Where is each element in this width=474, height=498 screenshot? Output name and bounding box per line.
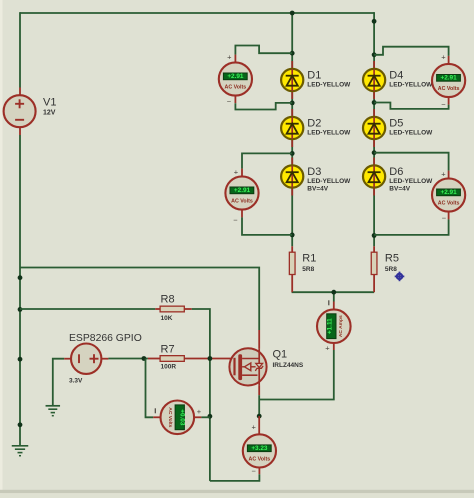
svg-text:+: +: [441, 52, 446, 61]
battery V1 12V DC source: [4, 95, 36, 127]
svg-text:ESP8266 GPIO: ESP8266 GPIO: [69, 333, 142, 344]
svg-text:V1: V1: [43, 97, 56, 109]
label M2 minus: [233, 215, 238, 224]
svg-text:AC Volts: AC Volts: [438, 200, 460, 206]
node source junction: [257, 414, 262, 419]
svg-text:D5: D5: [389, 118, 403, 130]
resistor R7: [160, 356, 184, 362]
wire D1 top pin: [291, 61, 293, 69]
node M7 negative junction: [372, 233, 377, 238]
battery ESP8266 GPIO source 3.3V: [71, 344, 101, 374]
svg-text:+: +: [227, 52, 232, 61]
wire M1 bottom pin: [234, 96, 236, 104]
label 10K: [161, 315, 173, 322]
label M1 minus: [227, 97, 232, 106]
label M4 minus: [154, 408, 156, 413]
wire M5 top pin: [333, 302, 335, 310]
svg-text:BV=4V: BV=4V: [307, 186, 328, 193]
svg-text:LED-YELLOW: LED-YELLOW: [389, 81, 433, 88]
label LED-YELLOW for D1: [307, 81, 351, 88]
wire source node segment: [258, 395, 260, 416]
wire M5 to resistor bottom wire: [333, 292, 335, 301]
ammeter M5 AC Amps +1.11: [317, 309, 351, 343]
label LED-YELLOW for D6: [389, 178, 433, 185]
label M3 plus: [441, 52, 446, 61]
wire ESP8266 to R7: [108, 358, 147, 360]
diode D5 LED-YELLOW: [363, 117, 385, 139]
svg-text:D1: D1: [307, 70, 321, 82]
wire D6 top pin: [373, 158, 375, 166]
voltmeter M7 AC Volts +2.91 bottom right: [432, 178, 465, 211]
node gate junction: [208, 356, 213, 361]
wire R7 to Q1 gate pin: [184, 358, 239, 360]
wire ESP8266 left pin: [64, 358, 71, 360]
svg-text:D2: D2: [307, 118, 321, 130]
svg-text:+2.91: +2.91: [441, 75, 458, 82]
wire D3 to R1 segment: [291, 196, 293, 247]
svg-text:AC Amps: AC Amps: [338, 315, 344, 337]
node M7 positive junction: [372, 150, 377, 155]
wire V1 bottom pin: [19, 127, 21, 135]
wire Q1 drain pin: [258, 330, 260, 349]
label Q1: [273, 348, 288, 360]
svg-text:+: +: [234, 167, 239, 176]
wire R5 top pin: [373, 246, 375, 252]
svg-text:−: −: [233, 215, 238, 224]
wire V1 top pin: [19, 88, 21, 96]
svg-text:+3.23: +3.23: [251, 445, 268, 452]
wire ESP8266 ground lead: [53, 359, 64, 406]
svg-text:R1: R1: [302, 252, 316, 264]
label M1 plus: [227, 52, 232, 61]
label D6: [389, 166, 403, 178]
label 5R8 for R1: [302, 266, 314, 273]
label 5R8 for R5: [385, 266, 397, 273]
svg-text:AC Volts: AC Volts: [167, 407, 173, 427]
wire M6 negative lead: [210, 474, 260, 481]
voltmeter M2 AC Volts +2.91 mid left: [225, 176, 258, 209]
node on left rail A: [18, 275, 23, 280]
node amps tap junction: [331, 290, 336, 295]
ground for ESP8266: [46, 406, 61, 416]
node M1 positive junction: [290, 51, 295, 56]
label D2: [307, 118, 321, 130]
svg-text:D4: D4: [389, 70, 403, 82]
svg-text:+1.11: +1.11: [327, 318, 334, 334]
node M4 positive junction: [208, 414, 213, 419]
wire R8 left pin: [155, 308, 160, 310]
label M6 plus: [252, 423, 257, 432]
wire D2 top pin: [291, 109, 293, 117]
svg-text:D3: D3: [307, 166, 321, 178]
label D4: [389, 70, 403, 82]
node on left rail B: [18, 307, 23, 312]
svg-text:+: +: [252, 423, 257, 432]
svg-text:−: −: [442, 213, 447, 222]
svg-text:+: +: [325, 344, 330, 353]
wire M2 top pin: [241, 169, 243, 177]
label D5: [389, 118, 403, 130]
node M3 negative junction: [372, 100, 377, 105]
voltmeter M1 AC Volts +2.91 top left: [219, 62, 252, 95]
wire top rail from V1 to LED strings: [20, 12, 374, 14]
resistor R5: [371, 252, 377, 274]
node M2 positive junction: [290, 151, 295, 156]
label M5 minus: [328, 300, 330, 305]
wire M5 bottom pin: [333, 343, 335, 350]
svg-text:LED-YELLOW: LED-YELLOW: [389, 129, 433, 136]
voltmeter M4 AC Volts +0.03: [161, 401, 195, 435]
resistor R1: [289, 252, 295, 274]
wire M1 negative lead: [235, 103, 292, 110]
svg-text:AC Volts: AC Volts: [438, 86, 460, 92]
svg-text:Q1: Q1: [273, 348, 288, 360]
wire M2 bottom pin: [241, 210, 243, 218]
node M1 negative junction: [290, 101, 295, 106]
wire D6 to R5 segment: [373, 196, 375, 247]
wire M4 left pin: [153, 416, 160, 418]
wire right LED string: [373, 12, 375, 195]
wire M7 positive lead: [374, 153, 449, 171]
wire M6 bottom pin: [258, 468, 260, 475]
wire M7 negative lead: [374, 219, 449, 235]
svg-text:LED-YELLOW: LED-YELLOW: [307, 129, 351, 136]
wire D2 bottom pin: [291, 139, 293, 147]
wire D3 top pin: [291, 158, 293, 166]
node right string top: [372, 19, 377, 24]
wire M3 negative lead: [374, 103, 449, 109]
wire M4 positive lead: [201, 416, 210, 418]
svg-text:−: −: [252, 467, 257, 476]
wire M3 bottom pin: [448, 97, 450, 105]
svg-text:5R8: 5R8: [302, 266, 314, 273]
svg-text:R7: R7: [161, 343, 175, 355]
label 100R: [161, 363, 177, 370]
diode D2 LED-YELLOW: [281, 117, 303, 139]
transistor Q1 IRLZ44NS MOSFET: [229, 348, 266, 385]
label M2 plus: [234, 167, 239, 176]
wire R7 left pin: [148, 358, 160, 360]
wire R1 top pin: [291, 246, 293, 252]
svg-text:LED-YELLOW: LED-YELLOW: [307, 178, 351, 185]
wire M1 positive lead: [235, 46, 292, 55]
wire D6 bottom pin: [373, 188, 375, 196]
wire R8 to gate node: [192, 309, 210, 359]
label M7 minus: [442, 213, 447, 222]
svg-text:+2.91: +2.91: [234, 187, 251, 194]
wire left rail to R8: [20, 308, 155, 310]
svg-text:D6: D6: [389, 166, 403, 178]
label V1: [43, 97, 56, 109]
label BV=4V for D6: [389, 186, 410, 193]
label R8: [161, 293, 175, 305]
diode D6 LED-YELLOW: [363, 165, 385, 187]
label D1: [307, 70, 321, 82]
resistor R8: [160, 306, 184, 312]
svg-text:R8: R8: [161, 293, 175, 305]
label LED-YELLOW for D5: [389, 129, 433, 136]
label LED-YELLOW for D3: [307, 178, 351, 185]
label M6 minus: [252, 467, 257, 476]
label M3 minus: [441, 100, 446, 109]
wire M4 negative lead: [146, 359, 154, 418]
ground for left rail: [12, 446, 29, 456]
svg-text:+2.91: +2.91: [227, 73, 244, 80]
label M5 plus: [325, 344, 330, 353]
wire Q1 source pin: [258, 385, 260, 395]
svg-text:−: −: [227, 97, 232, 106]
svg-text:BV=4V: BV=4V: [389, 186, 410, 193]
wire from left rail to Q1 drain: [20, 268, 259, 331]
wire D4 bottom pin: [373, 91, 375, 99]
svg-text:10K: 10K: [161, 315, 173, 322]
label M4 plus: [197, 407, 202, 416]
wire left rail bottom segment: [19, 135, 21, 446]
wire D5 bottom pin: [373, 139, 375, 147]
wire M3 top pin: [448, 56, 450, 64]
diode D3 LED-YELLOW: [281, 165, 303, 187]
wire M2 negative lead: [242, 217, 292, 235]
svg-text:+2.91: +2.91: [441, 189, 458, 196]
label M7 plus: [441, 169, 446, 178]
svg-text:100R: 100R: [161, 363, 177, 370]
wire D3 bottom pin: [291, 188, 293, 196]
label 12V: [43, 110, 56, 117]
node R7 left junction: [142, 356, 147, 361]
wire R5 bottom pin: [373, 275, 375, 293]
marker blue origin cross: [395, 272, 405, 282]
wire M2 positive lead: [242, 153, 292, 168]
label R5: [385, 252, 399, 264]
node M2 negative junction: [290, 233, 295, 238]
wire source to AC amps meter: [259, 350, 334, 400]
label BV=4V for D3: [307, 186, 328, 193]
diode D1 LED-YELLOW: [281, 69, 303, 91]
wire left LED string: [291, 13, 293, 196]
svg-text:R5: R5: [385, 252, 399, 264]
wire M3 positive lead: [374, 47, 449, 56]
svg-text:LED-YELLOW: LED-YELLOW: [389, 178, 433, 185]
label IRLZ44NS: [273, 362, 304, 369]
voltmeter M3 AC Volts +2.91 top right: [432, 64, 465, 97]
wire D4 top pin: [373, 61, 375, 69]
label 3.3V: [69, 378, 83, 385]
wire ESP8266 right pin: [101, 358, 108, 360]
node right jog junction: [372, 52, 377, 57]
node top tap left string: [290, 11, 295, 16]
label R7: [161, 343, 175, 355]
wire D1 bottom pin: [291, 91, 293, 99]
node on left rail D: [18, 422, 23, 427]
svg-text:+0.03: +0.03: [179, 409, 186, 426]
svg-text:−: −: [441, 100, 446, 109]
wire M7 bottom pin: [448, 212, 450, 220]
diode D4 LED-YELLOW: [363, 69, 385, 91]
wire left rail top segment: [19, 12, 21, 87]
node on left rail C: [18, 357, 23, 362]
label LED-YELLOW for D2: [307, 129, 351, 136]
svg-text:IRLZ44NS: IRLZ44NS: [273, 362, 304, 369]
label LED-YELLOW for D4: [389, 81, 433, 88]
svg-text:5R8: 5R8: [385, 266, 397, 273]
wire R8 right pin: [184, 308, 192, 310]
wire M6 top pin: [258, 416, 260, 434]
svg-text:LED-YELLOW: LED-YELLOW: [307, 81, 351, 88]
svg-text:3.3V: 3.3V: [69, 378, 83, 385]
wire M4 right pin: [194, 416, 201, 418]
svg-text:+: +: [197, 407, 202, 416]
wire M7 top pin: [448, 171, 450, 179]
wire D5 top pin: [373, 109, 375, 117]
voltmeter M6 AC Volts +3.23: [243, 434, 276, 467]
label D3: [307, 166, 321, 178]
svg-text:AC Volts: AC Volts: [231, 198, 253, 204]
wire R1 bottom pin: [291, 275, 293, 293]
label ESP8266 GPIO: [69, 333, 142, 344]
svg-text:+: +: [441, 169, 446, 178]
svg-text:12V: 12V: [43, 110, 56, 117]
wire R1 R5 common bottom: [292, 291, 375, 293]
label R1: [302, 252, 316, 264]
svg-text:AC Volts: AC Volts: [225, 84, 247, 90]
wire gate node vertical: [209, 359, 211, 481]
svg-text:AC Volts: AC Volts: [249, 456, 271, 462]
wire M1 top pin: [234, 55, 236, 63]
